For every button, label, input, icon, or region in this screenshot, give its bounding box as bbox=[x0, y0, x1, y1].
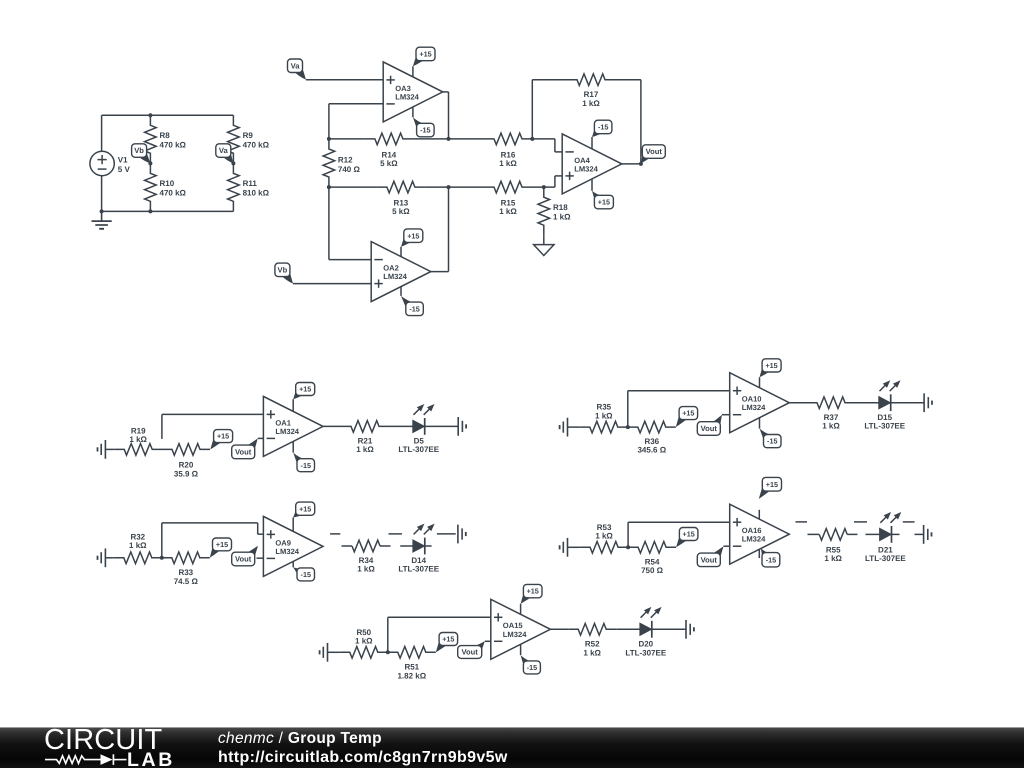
svg-text:1 kΩ: 1 kΩ bbox=[595, 412, 613, 421]
svg-text:R20: R20 bbox=[179, 461, 194, 470]
wire Va to OA3 bbox=[306, 79, 383, 81]
flag +15 OA3 bbox=[413, 54, 425, 67]
ground row2 right bbox=[457, 525, 459, 544]
resistor R51 bbox=[388, 647, 436, 659]
wire row4 to OA16 + bbox=[627, 522, 629, 547]
resistor R50 bbox=[340, 647, 388, 659]
svg-text:1 kΩ: 1 kΩ bbox=[129, 435, 147, 444]
resistor R33 bbox=[162, 552, 210, 564]
wire Vout2 stub bbox=[257, 557, 264, 559]
flag -15 OA15 bbox=[521, 655, 532, 668]
wire OA16 -15 stub bbox=[758, 549, 760, 558]
wire row2 input bbox=[105, 557, 113, 559]
flag +15 row2 divider bbox=[210, 544, 221, 558]
wire OA15 +15 stub bbox=[520, 604, 522, 615]
junction row4 bbox=[626, 545, 630, 549]
wire row2 to OA9 + bbox=[161, 523, 163, 558]
wire R21 to D5 bbox=[389, 425, 413, 427]
wire row5 input bbox=[328, 651, 340, 653]
svg-text:-15: -15 bbox=[301, 570, 311, 579]
wire R55 stubs bbox=[808, 533, 820, 535]
flag -15 OA16 bbox=[761, 548, 771, 559]
svg-text:LM324: LM324 bbox=[275, 427, 299, 436]
op-amp OA2 bbox=[371, 242, 431, 302]
svg-text:-15: -15 bbox=[301, 461, 311, 470]
wire OA2 inverting input bbox=[329, 259, 371, 261]
flag Vout row3 bbox=[712, 415, 722, 429]
svg-text:1 kΩ: 1 kΩ bbox=[582, 99, 600, 108]
resistor R53 bbox=[580, 542, 628, 554]
flag +15 OA9 bbox=[293, 508, 304, 517]
flag +15 row4 divider bbox=[676, 534, 688, 548]
svg-text:Va: Va bbox=[291, 61, 301, 70]
wire row1 input bbox=[105, 448, 114, 450]
svg-text:470 kΩ: 470 kΩ bbox=[243, 140, 270, 149]
op-amp OA4 bbox=[562, 134, 622, 194]
op-amp OA16 bbox=[730, 504, 790, 564]
svg-text:-15: -15 bbox=[527, 663, 537, 672]
junction row3 bbox=[626, 425, 630, 429]
svg-text:+15: +15 bbox=[419, 50, 431, 59]
wire R17 right bbox=[615, 79, 641, 81]
svg-text:LTL-307EE: LTL-307EE bbox=[864, 422, 905, 431]
wire OA1 +15 stub bbox=[292, 399, 294, 411]
resistor R12 bbox=[323, 139, 335, 187]
svg-text:Vout: Vout bbox=[701, 555, 718, 564]
resistor R37 bbox=[807, 397, 855, 409]
svg-text:+15: +15 bbox=[407, 231, 419, 240]
wire R37 to D15 bbox=[855, 402, 879, 404]
svg-text:Va: Va bbox=[219, 146, 229, 155]
svg-text:R53: R53 bbox=[597, 523, 612, 532]
svg-text:Vout: Vout bbox=[646, 147, 663, 156]
wire D14 stubs bbox=[400, 545, 413, 547]
resistor R10 bbox=[145, 163, 157, 211]
flag +15 row1 divider bbox=[210, 436, 222, 450]
svg-text:LTL-307EE: LTL-307EE bbox=[398, 565, 439, 574]
wire OA3 -15 stub bbox=[412, 107, 414, 118]
svg-text:+15: +15 bbox=[598, 198, 610, 207]
svg-text:R10: R10 bbox=[160, 179, 175, 188]
flag -15 OA3 bbox=[413, 117, 425, 130]
svg-text:LM324: LM324 bbox=[395, 92, 419, 101]
wire OA15 output bbox=[550, 628, 568, 630]
LED D20 bbox=[640, 623, 652, 635]
svg-text:+15: +15 bbox=[217, 432, 229, 441]
svg-text:740 Ω: 740 Ω bbox=[338, 165, 361, 174]
svg-text:1 kΩ: 1 kΩ bbox=[553, 213, 571, 222]
node Va flag bbox=[222, 150, 233, 163]
wire OA1 output bbox=[323, 425, 341, 427]
svg-text:Vout: Vout bbox=[462, 648, 479, 657]
wire OA4 top stub bbox=[591, 137, 593, 149]
LED D21 bbox=[880, 528, 892, 540]
node Vb input flag bbox=[281, 270, 293, 284]
wire OA9 +15 stub bbox=[292, 518, 294, 532]
wire row1 to OA1 + bbox=[161, 414, 163, 439]
svg-text:810 kΩ: 810 kΩ bbox=[243, 189, 270, 198]
ground row3 right bbox=[923, 393, 925, 412]
flag Vout OA4 bbox=[641, 151, 651, 163]
svg-text:-15: -15 bbox=[598, 123, 608, 132]
resistor R19 bbox=[114, 444, 162, 456]
resistor R11 bbox=[228, 163, 240, 211]
svg-text:1 kΩ: 1 kΩ bbox=[129, 541, 147, 550]
wire OA2 -15 stub bbox=[400, 287, 402, 296]
ground row3 left bbox=[567, 418, 569, 437]
svg-text:V1: V1 bbox=[118, 156, 128, 165]
wire OA3 +15 stub bbox=[412, 66, 414, 77]
svg-text:74.5 Ω: 74.5 Ω bbox=[174, 577, 199, 586]
svg-text:5 kΩ: 5 kΩ bbox=[392, 207, 410, 216]
svg-text:1 kΩ: 1 kΩ bbox=[356, 445, 374, 454]
flag +15 OA16 bbox=[759, 484, 771, 499]
resistor R8 bbox=[145, 115, 157, 163]
svg-text:-15: -15 bbox=[767, 437, 777, 446]
svg-text:LTL-307EE: LTL-307EE bbox=[865, 554, 906, 563]
wire OA16 +15 stub bbox=[758, 510, 760, 519]
flag Vout row5 bbox=[473, 641, 485, 652]
svg-text:R11: R11 bbox=[243, 179, 258, 188]
svg-text:Vout: Vout bbox=[235, 448, 252, 457]
resistor R35 bbox=[580, 421, 628, 433]
svg-text:345.6 Ω: 345.6 Ω bbox=[637, 446, 666, 455]
resistor R34 bbox=[352, 540, 380, 552]
flag +15 row3 divider bbox=[676, 413, 688, 428]
svg-text:5 kΩ: 5 kΩ bbox=[380, 159, 398, 168]
flag +15 OA10 bbox=[760, 365, 771, 377]
LED D14 bbox=[413, 540, 425, 552]
svg-text:LM324: LM324 bbox=[574, 164, 598, 173]
ground row2 left bbox=[104, 548, 106, 567]
flag Vout row2 bbox=[246, 546, 258, 559]
svg-text:5 V: 5 V bbox=[118, 165, 131, 174]
svg-text:-15: -15 bbox=[766, 555, 776, 564]
node Va input flag bbox=[294, 66, 306, 80]
svg-text:1 kΩ: 1 kΩ bbox=[822, 422, 840, 431]
svg-text:-15: -15 bbox=[409, 304, 419, 313]
svg-text:35.9 Ω: 35.9 Ω bbox=[174, 469, 199, 478]
op-amp OA10 bbox=[730, 373, 790, 433]
resistor R55 bbox=[819, 529, 847, 541]
svg-text:R8: R8 bbox=[160, 131, 171, 140]
wire row4 input bbox=[568, 546, 581, 548]
flag Vout row1 bbox=[246, 438, 258, 452]
op-amp OA3 bbox=[383, 62, 443, 122]
resistor R54 bbox=[628, 542, 676, 554]
wire OA10 output bbox=[789, 402, 807, 404]
wire upper line bbox=[329, 138, 365, 140]
wire OA4 output bbox=[622, 163, 641, 165]
wire D5 to ground bbox=[425, 425, 458, 427]
resistor R17 bbox=[567, 74, 615, 86]
svg-text:1 kΩ: 1 kΩ bbox=[595, 532, 613, 541]
flag -15 OA1 bbox=[293, 453, 305, 466]
op-amp OA9 bbox=[263, 516, 323, 576]
svg-text:1 kΩ: 1 kΩ bbox=[583, 648, 601, 657]
flag -15 OA2 bbox=[401, 296, 414, 309]
wire OA9 output dashed bbox=[330, 533, 340, 535]
flag +15 OA1 bbox=[293, 389, 304, 400]
svg-text:LTL-307EE: LTL-307EE bbox=[625, 648, 666, 657]
svg-text:+15: +15 bbox=[766, 480, 778, 489]
flag -15 OA9 bbox=[293, 567, 305, 575]
flag -15 OA4 bbox=[592, 127, 603, 137]
op-amp OA15 bbox=[491, 599, 551, 659]
svg-text:+15: +15 bbox=[216, 540, 228, 549]
flag +15 OA2 bbox=[401, 235, 412, 246]
resistor R13 bbox=[377, 181, 425, 193]
wire lower line bbox=[329, 186, 377, 188]
svg-text:R12: R12 bbox=[338, 156, 353, 165]
wire Vout1 stub bbox=[258, 437, 264, 439]
wire OA10 -15 stub bbox=[759, 418, 761, 429]
svg-text:+15: +15 bbox=[299, 385, 311, 394]
ground bbox=[101, 211, 103, 221]
logo resistor-diode symbol bbox=[45, 756, 101, 764]
junction dots instrumentation amp bbox=[327, 137, 331, 141]
wire R34 stubs bbox=[342, 545, 353, 547]
wire V1 top bbox=[101, 115, 103, 151]
svg-text:R35: R35 bbox=[596, 403, 611, 412]
wire OA15 -15 stub bbox=[520, 644, 522, 655]
wire row3 input bbox=[568, 426, 580, 428]
wire to row4 ground bbox=[915, 533, 924, 535]
svg-text:1 kΩ: 1 kΩ bbox=[499, 159, 517, 168]
voltage source V1 bbox=[90, 151, 114, 175]
resistor R16 bbox=[484, 133, 532, 145]
ground row5 left bbox=[327, 643, 329, 662]
ground row1 left bbox=[104, 440, 106, 459]
wire OA1 -15 stub bbox=[292, 441, 294, 452]
wire OA10 +15 stub bbox=[759, 377, 761, 387]
ground row5 right bbox=[685, 620, 687, 639]
ground row1 right bbox=[457, 417, 459, 436]
ground row4 left bbox=[567, 538, 569, 557]
svg-text:-15: -15 bbox=[420, 126, 430, 135]
resistor R9 bbox=[228, 115, 240, 163]
wire OA9 -15 stub bbox=[292, 561, 294, 567]
wire D20 to ground bbox=[652, 628, 686, 630]
svg-text:+15: +15 bbox=[683, 530, 695, 539]
op-amp OA1 bbox=[263, 396, 323, 456]
node Vb flag bbox=[138, 150, 150, 163]
svg-text:750 Ω: 750 Ω bbox=[641, 566, 664, 575]
svg-text:R50: R50 bbox=[356, 628, 371, 637]
svg-text:R51: R51 bbox=[404, 663, 419, 672]
resistor R18 bbox=[538, 187, 550, 235]
svg-text:+15: +15 bbox=[299, 504, 311, 513]
resistor R36 bbox=[628, 421, 676, 433]
svg-text:+15: +15 bbox=[442, 635, 454, 644]
svg-text:470 kΩ: 470 kΩ bbox=[160, 189, 187, 198]
svg-text:+15: +15 bbox=[765, 361, 777, 370]
wire OA2 +15 stub bbox=[400, 247, 402, 257]
resistor R21 bbox=[341, 421, 389, 433]
svg-text:1 kΩ: 1 kΩ bbox=[499, 207, 517, 216]
wire Vout3 stub bbox=[722, 414, 730, 416]
wire R18 to ground bbox=[543, 235, 545, 244]
svg-text:R9: R9 bbox=[243, 131, 254, 140]
flag +15 OA15 bbox=[521, 591, 532, 604]
flag Vout row4 bbox=[712, 546, 724, 560]
flag +15 OA4 bbox=[592, 191, 603, 203]
wire D21 stubs bbox=[866, 533, 880, 535]
LED D5 bbox=[413, 420, 425, 432]
svg-text:1 kΩ: 1 kΩ bbox=[824, 554, 842, 563]
junction dots left network bbox=[148, 113, 152, 117]
wire D15 to ground bbox=[891, 402, 924, 404]
svg-text:Vout: Vout bbox=[235, 555, 252, 564]
svg-text:LM324: LM324 bbox=[503, 630, 527, 639]
resistor R52 bbox=[568, 624, 616, 636]
junction row5 bbox=[386, 650, 390, 654]
wire R52 to D20 bbox=[616, 628, 640, 630]
wire row5 to OA15 + bbox=[387, 617, 389, 652]
svg-text:LM324: LM324 bbox=[742, 535, 766, 544]
wire R17 left bbox=[532, 79, 567, 81]
wire OA3 output bbox=[443, 91, 449, 93]
ground row4 right bbox=[923, 525, 925, 544]
wire OA4 bottom stub bbox=[591, 179, 593, 191]
wire OA16 output dashed bbox=[796, 521, 808, 523]
svg-text:Vout: Vout bbox=[701, 424, 718, 433]
svg-text:LM324: LM324 bbox=[742, 403, 766, 412]
svg-text:Vb: Vb bbox=[134, 146, 144, 155]
wire Vout5 stub bbox=[485, 640, 491, 642]
flag +15 row5 divider bbox=[436, 639, 448, 653]
resistor R15 bbox=[484, 181, 532, 193]
resistor R20 bbox=[162, 444, 210, 456]
svg-text:1.82 kΩ: 1.82 kΩ bbox=[397, 671, 426, 680]
wire V1 bottom bbox=[101, 175, 103, 211]
wire row3 to OA10 + bbox=[627, 391, 629, 427]
wire Vout4 stub bbox=[724, 545, 730, 547]
resistor R14 bbox=[365, 133, 413, 145]
ground R18 bbox=[534, 245, 554, 256]
svg-text:LM324: LM324 bbox=[383, 272, 407, 281]
svg-text:+15: +15 bbox=[527, 587, 539, 596]
svg-text:+15: +15 bbox=[682, 409, 694, 418]
wire OA2 output bbox=[431, 271, 449, 273]
junction row2 bbox=[160, 556, 164, 560]
svg-text:LTL-307EE: LTL-307EE bbox=[398, 445, 439, 454]
svg-text:1 kΩ: 1 kΩ bbox=[357, 565, 375, 574]
wire OA3 inverting input bbox=[329, 103, 383, 105]
flag -15 OA10 bbox=[760, 429, 773, 442]
LED D15 bbox=[879, 397, 891, 409]
svg-text:470 kΩ: 470 kΩ bbox=[160, 140, 187, 149]
svg-text:R32: R32 bbox=[130, 532, 145, 541]
svg-text:R19: R19 bbox=[131, 426, 146, 435]
svg-text:R18: R18 bbox=[553, 203, 568, 212]
resistor R32 bbox=[114, 552, 162, 564]
wire Vb to OA2 bbox=[293, 283, 371, 285]
svg-text:1 kΩ: 1 kΩ bbox=[355, 637, 373, 646]
svg-text:LM324: LM324 bbox=[275, 547, 299, 556]
svg-text:Vb: Vb bbox=[278, 265, 288, 274]
